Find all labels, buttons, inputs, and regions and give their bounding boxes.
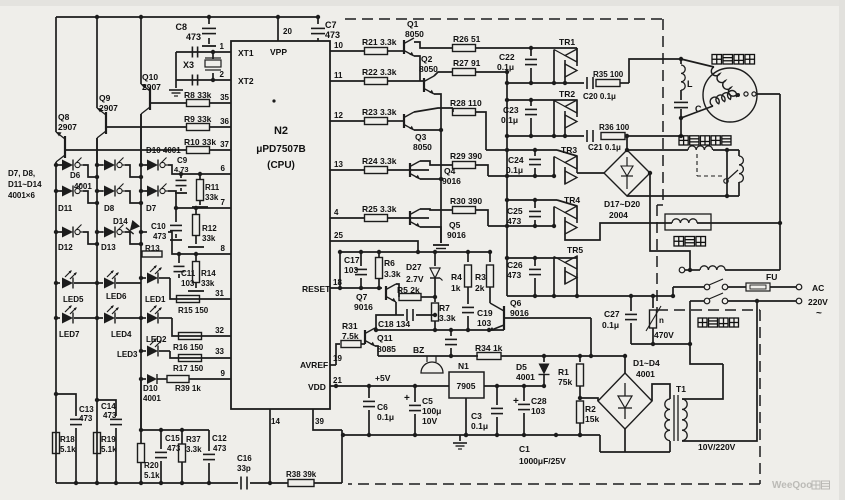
resistor R23 pin12 row bbox=[330, 120, 365, 122]
svg-text:R15 150: R15 150 bbox=[178, 306, 209, 315]
wire R28 jog to TR3 row bbox=[476, 112, 486, 150]
wire snubber row TR1 bbox=[507, 82, 584, 84]
resistor R16 bbox=[179, 333, 202, 340]
inlet valve box bbox=[665, 214, 711, 230]
svg-text:C12: C12 bbox=[212, 434, 227, 443]
wire rail to Q9 emitter bbox=[96, 17, 98, 108]
svg-text:Q10: Q10 bbox=[142, 72, 158, 82]
wire LED2 to R16 pin32 bbox=[172, 318, 231, 336]
motor centrifugal switch bbox=[736, 93, 740, 97]
wire TR4 MT to valve row bbox=[565, 223, 615, 240]
svg-text:7: 7 bbox=[221, 198, 226, 207]
diode key row1 col2 bbox=[102, 164, 104, 166]
svg-text:R37: R37 bbox=[186, 435, 201, 444]
svg-text:R6: R6 bbox=[384, 258, 395, 268]
wire N1 ground pin bbox=[465, 398, 467, 435]
motor winding B bbox=[710, 91, 737, 106]
svg-text:FU: FU bbox=[766, 272, 777, 282]
svg-text:11: 11 bbox=[334, 71, 343, 80]
svg-text:R36 100: R36 100 bbox=[599, 123, 630, 132]
inductor L motor bbox=[679, 57, 683, 61]
wire bridge bottom to secondary return bbox=[624, 429, 626, 452]
wire left rail vertical upper bbox=[55, 17, 57, 132]
svg-text:C28: C28 bbox=[531, 396, 547, 406]
capacitor C12 bbox=[208, 430, 210, 451]
svg-text:7.5k: 7.5k bbox=[342, 331, 359, 341]
diode D10 bottom pin9 row bbox=[139, 377, 143, 381]
wire secondary return bbox=[600, 451, 670, 453]
svg-text:9016: 9016 bbox=[442, 176, 461, 186]
svg-text:470V: 470V bbox=[654, 330, 674, 340]
wire pin39 drop bbox=[313, 409, 342, 430]
svg-text:R39 1k: R39 1k bbox=[175, 384, 201, 393]
svg-text:C3: C3 bbox=[471, 411, 482, 421]
dashed border right upper bbox=[662, 19, 664, 205]
svg-text:33: 33 bbox=[215, 347, 224, 356]
svg-text:9016: 9016 bbox=[510, 308, 529, 318]
capacitor C23 bbox=[530, 100, 532, 106]
wire rail to Q10 emitter bbox=[140, 17, 142, 84]
triac TR1 bbox=[576, 49, 578, 66]
svg-text:C21 0.1μ: C21 0.1μ bbox=[588, 143, 621, 152]
wire pin9 column to RC row bbox=[140, 379, 142, 430]
svg-text:n: n bbox=[659, 316, 664, 325]
svg-text:LED3: LED3 bbox=[117, 350, 138, 359]
svg-text:0.1μ: 0.1μ bbox=[501, 115, 518, 125]
svg-text:C23: C23 bbox=[503, 105, 519, 115]
svg-text:25: 25 bbox=[334, 231, 343, 240]
wire Q6 base row to R34 junction bbox=[504, 317, 591, 319]
solenoid plunger coil bbox=[738, 150, 740, 156]
svg-text:R5 2k: R5 2k bbox=[397, 285, 420, 295]
svg-text:AC: AC bbox=[812, 283, 824, 293]
node top rail junction bbox=[276, 15, 280, 19]
svg-text:C17: C17 bbox=[344, 255, 360, 265]
wire TR4 top row bbox=[507, 199, 557, 201]
wire TR3 lower row bbox=[488, 175, 554, 177]
svg-text:473: 473 bbox=[507, 270, 521, 280]
wire XT2 pin 2 bbox=[176, 79, 231, 81]
svg-text:D11: D11 bbox=[58, 204, 73, 213]
svg-text:D1~D4: D1~D4 bbox=[633, 358, 660, 368]
led LED5 bbox=[54, 281, 58, 285]
capacitor xtal C-a bbox=[191, 47, 193, 58]
svg-text:32: 32 bbox=[215, 326, 224, 335]
diode key D11 row2 col1 bbox=[60, 190, 62, 192]
varistor Rv 470V bbox=[651, 294, 655, 298]
svg-text:L: L bbox=[687, 79, 693, 89]
svg-text:9016: 9016 bbox=[447, 230, 466, 240]
svg-text:R8 33k: R8 33k bbox=[184, 90, 212, 100]
wire column2 vertical bbox=[96, 138, 98, 318]
svg-text:6: 6 bbox=[221, 164, 226, 173]
resistor R37 bbox=[180, 428, 184, 432]
wire RESET pin18 row bbox=[330, 287, 382, 289]
svg-text:12: 12 bbox=[334, 111, 343, 120]
svg-text:C16: C16 bbox=[237, 454, 252, 463]
wire triac common bus bbox=[506, 72, 508, 296]
triac TR4 bbox=[576, 206, 578, 223]
svg-text:R9 33k: R9 33k bbox=[184, 114, 212, 124]
resistor R26 bbox=[414, 42, 452, 48]
svg-text:473: 473 bbox=[103, 411, 117, 420]
svg-text:8050: 8050 bbox=[419, 64, 438, 74]
wire Q9 collector column2 bbox=[96, 138, 98, 165]
svg-text:37: 37 bbox=[220, 140, 229, 149]
svg-text:R21 3.3k: R21 3.3k bbox=[362, 37, 397, 47]
regulator N1 7905 bbox=[449, 372, 484, 398]
svg-text:N1: N1 bbox=[458, 361, 469, 371]
svg-text:C25: C25 bbox=[507, 206, 523, 216]
svg-text:R29 390: R29 390 bbox=[450, 151, 482, 161]
resistor R18 on left rail bbox=[53, 433, 60, 454]
wire TR5 MT to AC common bbox=[576, 273, 578, 296]
svg-text:D11~D14: D11~D14 bbox=[8, 180, 42, 189]
svg-text:473: 473 bbox=[153, 232, 167, 241]
svg-text:3.3k: 3.3k bbox=[439, 313, 456, 323]
node top rail junction bbox=[207, 15, 211, 19]
switch power S1b bbox=[690, 300, 704, 302]
resistor R4 bbox=[466, 250, 470, 254]
svg-text:Q3: Q3 bbox=[415, 132, 427, 142]
capacitor C6 bbox=[367, 384, 371, 388]
svg-text:R1: R1 bbox=[558, 367, 569, 377]
wire neutral drop bbox=[689, 301, 691, 344]
capacitor C27 bbox=[629, 294, 633, 298]
wire motor bottom lead diagonal bbox=[681, 106, 713, 118]
resistor R25 pin4 row bbox=[330, 217, 365, 219]
ground symbol under N1 bbox=[459, 435, 461, 441]
led LED4 bbox=[95, 316, 99, 320]
resistor R34 bbox=[477, 353, 501, 360]
dashed border jog bbox=[657, 204, 663, 206]
wire snubber row TR2 bbox=[507, 135, 584, 137]
solenoid mechanical link dashed bbox=[696, 154, 698, 176]
svg-text:473: 473 bbox=[213, 444, 227, 453]
svg-text:C27: C27 bbox=[604, 309, 620, 319]
svg-text:R7: R7 bbox=[439, 303, 450, 313]
capacitor C5 polarized bbox=[413, 384, 417, 388]
svg-text:C10: C10 bbox=[151, 222, 166, 231]
svg-text:33k: 33k bbox=[205, 193, 219, 202]
CPU inner dot bbox=[272, 99, 275, 102]
svg-text:4001: 4001 bbox=[516, 372, 535, 382]
svg-text:19: 19 bbox=[333, 354, 342, 363]
svg-text:Q2: Q2 bbox=[421, 54, 433, 64]
svg-text:R27 91: R27 91 bbox=[453, 58, 481, 68]
wire TR3 gate feed bbox=[553, 157, 555, 177]
transistor Q7 bbox=[385, 286, 387, 300]
svg-text:+: + bbox=[513, 396, 519, 407]
wire secondary bottom bbox=[669, 441, 671, 452]
svg-text:R10 33k: R10 33k bbox=[184, 137, 216, 147]
svg-text:9: 9 bbox=[221, 369, 226, 378]
svg-text:R23 3.3k: R23 3.3k bbox=[362, 107, 397, 117]
motor circle bbox=[703, 68, 757, 122]
wire LED1 to R15 pin31 bbox=[170, 278, 231, 299]
resistor R3 bbox=[488, 250, 492, 254]
svg-text:R2: R2 bbox=[585, 404, 596, 414]
svg-text:VDD: VDD bbox=[308, 382, 326, 392]
dashed border power box right bbox=[759, 310, 761, 484]
svg-text:33p: 33p bbox=[237, 464, 251, 473]
wire TR2 gate feed bbox=[553, 101, 555, 137]
wire row2 to pin7 bbox=[168, 191, 231, 208]
wire Q7 emitter down bbox=[395, 302, 397, 315]
svg-text:C26: C26 bbox=[507, 260, 523, 270]
svg-text:Q11: Q11 bbox=[377, 333, 393, 343]
resistor R24 pin13 row bbox=[330, 169, 365, 171]
svg-text:2004: 2004 bbox=[609, 210, 628, 220]
svg-text:TR5: TR5 bbox=[567, 245, 583, 255]
zener D27 bbox=[433, 250, 437, 254]
svg-text:36: 36 bbox=[220, 117, 229, 126]
resistor R10 pin37 bbox=[65, 149, 186, 151]
svg-text:R16 150: R16 150 bbox=[173, 343, 204, 352]
wire TR3 MT to bridge bbox=[577, 172, 604, 174]
svg-text:D13: D13 bbox=[101, 243, 116, 252]
wire left rail vertical lower bbox=[55, 162, 57, 483]
svg-text:TR3: TR3 bbox=[561, 145, 577, 155]
capacitor C17 bbox=[359, 250, 363, 254]
svg-text:C13: C13 bbox=[79, 405, 94, 414]
wire R34 row bbox=[378, 355, 478, 357]
svg-text:D12: D12 bbox=[58, 243, 73, 252]
svg-text:2907: 2907 bbox=[99, 103, 118, 113]
wire plunger node drop bbox=[726, 150, 728, 196]
svg-text:R22 3.3k: R22 3.3k bbox=[362, 67, 397, 77]
svg-text:D17~D20: D17~D20 bbox=[604, 199, 640, 209]
triac TR5 bbox=[576, 256, 578, 273]
wire TR1 top feed bbox=[507, 47, 577, 49]
svg-text:XT1: XT1 bbox=[238, 48, 254, 58]
svg-text:3.3k: 3.3k bbox=[384, 269, 401, 279]
wire Q5 emitter to ground bus bbox=[420, 227, 441, 243]
svg-text:9016: 9016 bbox=[354, 302, 373, 312]
led LED6 bbox=[95, 281, 99, 285]
svg-text:R14: R14 bbox=[201, 269, 216, 278]
wire TR4 lower row bbox=[488, 225, 554, 227]
capacitor C8 bbox=[208, 17, 210, 24]
transistor Q2 bbox=[423, 78, 425, 92]
svg-text:D27: D27 bbox=[406, 262, 422, 272]
wire return to zero rail bbox=[599, 435, 601, 452]
wire N1 output row bbox=[484, 385, 544, 387]
svg-text:R11: R11 bbox=[205, 183, 220, 192]
wire RC row bbox=[141, 429, 209, 431]
wire pin14 drop bbox=[269, 409, 271, 483]
wire xtal ground leg bbox=[175, 52, 177, 88]
wire key row 1 bbox=[56, 164, 62, 166]
wire TR2 top feed bbox=[507, 99, 577, 101]
capacitor C16 series bbox=[240, 477, 242, 490]
wire AVREF VDD +5V rail bbox=[330, 385, 449, 387]
svg-text:0.1μ: 0.1μ bbox=[471, 421, 488, 431]
wire Q2 emitter to common bus bbox=[434, 94, 441, 243]
svg-text:(CPU): (CPU) bbox=[267, 160, 295, 171]
diode key row1 col3 bbox=[145, 164, 147, 166]
svg-text:D7: D7 bbox=[146, 204, 157, 213]
triac TR3 bbox=[576, 156, 578, 173]
capacitor C13 bbox=[54, 392, 58, 396]
capacitor xtal C-b bbox=[191, 75, 193, 86]
resistor R20 bbox=[138, 444, 145, 463]
node top rail junction bbox=[316, 15, 320, 19]
svg-text:+: + bbox=[404, 393, 410, 404]
resistor R22 pin11 row bbox=[330, 80, 365, 82]
resistor R36 bbox=[601, 133, 625, 140]
svg-text:39: 39 bbox=[315, 417, 324, 426]
svg-text:C8: C8 bbox=[175, 22, 187, 32]
dashed border right mid bbox=[656, 205, 658, 310]
capacitor C25 bbox=[534, 200, 536, 208]
svg-text:R17 150: R17 150 bbox=[173, 364, 204, 373]
wire top VDD rail bbox=[56, 16, 318, 18]
svg-text:21: 21 bbox=[333, 376, 342, 385]
svg-text:R35 100: R35 100 bbox=[593, 70, 624, 79]
resistor R27 bbox=[434, 72, 453, 76]
svg-text:1: 1 bbox=[220, 42, 225, 51]
svg-text:C7: C7 bbox=[325, 20, 337, 30]
resistor R9 pin36 bbox=[106, 126, 186, 128]
svg-text:LED1: LED1 bbox=[145, 295, 166, 304]
svg-text:C22: C22 bbox=[499, 52, 515, 62]
wire LED3 to R17 pin33 bbox=[170, 351, 231, 358]
wire VPP pin 20 bbox=[277, 17, 279, 41]
dashed border bottom bbox=[348, 483, 760, 485]
crystal X3 bbox=[212, 52, 214, 59]
transistor Q11 bbox=[364, 330, 366, 344]
svg-text:75k: 75k bbox=[558, 377, 572, 387]
svg-text:RESET: RESET bbox=[302, 284, 331, 294]
resistor R28 bbox=[414, 108, 453, 112]
capacitor C20 bbox=[586, 77, 588, 89]
wire neutral row under varistor bbox=[631, 343, 690, 345]
svg-text:10: 10 bbox=[334, 41, 343, 50]
resistor R2 bbox=[577, 401, 584, 423]
transistor Q3 bbox=[403, 114, 405, 128]
wire solenoid to plunger node bbox=[713, 149, 739, 151]
svg-text:C15: C15 bbox=[165, 434, 180, 443]
svg-text:103: 103 bbox=[477, 318, 491, 328]
svg-text:TR1: TR1 bbox=[559, 37, 575, 47]
svg-text:5.1k: 5.1k bbox=[101, 445, 117, 454]
capacitor C11 bbox=[177, 252, 181, 256]
svg-text:AVREF: AVREF bbox=[300, 360, 328, 370]
wire TR3 top row from R28 bbox=[486, 149, 557, 151]
wire secondary top to bridge bbox=[652, 384, 670, 401]
resistor R21 pin10 row bbox=[330, 50, 365, 52]
diode key D13 row3 col2 bbox=[102, 231, 104, 233]
svg-text:D14: D14 bbox=[113, 217, 128, 226]
wire R38 to zero rail bbox=[341, 430, 343, 483]
wire row1 to pin6 bbox=[168, 165, 231, 174]
svg-text:4001: 4001 bbox=[74, 182, 92, 191]
capacitor C10 bbox=[174, 206, 178, 210]
wire bridge right vertex down bbox=[650, 173, 690, 267]
resistor R19 bbox=[96, 318, 98, 483]
wire row3 to pin8 bbox=[168, 232, 231, 254]
wire TR1 top lead bbox=[576, 48, 578, 49]
wire neutral jog to primary bbox=[690, 344, 723, 364]
svg-text:20: 20 bbox=[283, 27, 292, 36]
resistor R8 pin35 bbox=[150, 102, 186, 104]
svg-text:C5: C5 bbox=[422, 396, 433, 406]
svg-text:18: 18 bbox=[333, 278, 342, 287]
svg-text:2907: 2907 bbox=[142, 82, 161, 92]
svg-text:LED2: LED2 bbox=[146, 335, 167, 344]
wire motor top lead diagonal bbox=[681, 59, 714, 67]
svg-text:R20: R20 bbox=[144, 461, 159, 470]
resistor R15 bbox=[177, 296, 200, 303]
svg-text:7905: 7905 bbox=[457, 381, 476, 391]
resistor R6 bbox=[377, 250, 381, 254]
svg-text:R38 39k: R38 39k bbox=[286, 470, 317, 479]
svg-text:T1: T1 bbox=[676, 384, 686, 394]
capacitor C7 bbox=[317, 17, 319, 24]
svg-text:C1: C1 bbox=[519, 444, 530, 454]
wire Q7 emitter column bbox=[376, 315, 396, 330]
wire pin25 jog to zener rail bbox=[330, 241, 418, 252]
svg-text:C11: C11 bbox=[181, 269, 196, 278]
led LED7 bbox=[54, 316, 58, 320]
transistor Q1 bbox=[403, 40, 405, 54]
svg-text:LED4: LED4 bbox=[111, 330, 132, 339]
svg-text:C6: C6 bbox=[377, 402, 388, 412]
wire key row 2 bbox=[56, 190, 62, 192]
svg-text:10V/220V: 10V/220V bbox=[698, 442, 736, 452]
svg-text:1000μF/25V: 1000μF/25V bbox=[519, 456, 566, 466]
wire TR2 MT to snubber row bbox=[564, 128, 566, 136]
fuse FU bbox=[746, 283, 770, 291]
resistor R29 bbox=[420, 161, 453, 165]
wire column3 vertical bbox=[140, 114, 142, 443]
wire C17 left leg to reset row bbox=[339, 252, 341, 288]
node top rail junction bbox=[139, 15, 143, 19]
svg-text:C18 134: C18 134 bbox=[378, 319, 410, 329]
resistor R1 bbox=[578, 354, 582, 358]
svg-text:5.1k: 5.1k bbox=[60, 445, 76, 454]
inlet valve coil bbox=[615, 222, 672, 224]
svg-text:D10 4001: D10 4001 bbox=[146, 146, 181, 155]
label motor bbox=[712, 55, 722, 65]
svg-text:5.1k: 5.1k bbox=[144, 471, 160, 480]
svg-text:D5: D5 bbox=[516, 362, 527, 372]
svg-text:R25 3.3k: R25 3.3k bbox=[362, 204, 397, 214]
svg-text:Q4: Q4 bbox=[444, 166, 456, 176]
capacitor between buses bbox=[449, 328, 453, 332]
wire motor to right rail bbox=[756, 93, 780, 95]
resistor R17 bbox=[179, 355, 202, 362]
wire TR5 top feed bbox=[507, 257, 577, 259]
label inlet valve bbox=[674, 237, 684, 247]
capacitor C24 bbox=[534, 150, 536, 156]
svg-text:LED5: LED5 bbox=[63, 295, 84, 304]
svg-text:R26 51: R26 51 bbox=[453, 34, 481, 44]
svg-text:4001: 4001 bbox=[143, 394, 161, 403]
svg-text:WeeQoo: WeeQoo bbox=[772, 480, 812, 491]
svg-text:2: 2 bbox=[220, 70, 225, 79]
svg-text:3.3k: 3.3k bbox=[186, 445, 202, 454]
transistor Q10 bbox=[149, 88, 151, 110]
diode key D8 row2 col2 bbox=[102, 190, 104, 192]
transistor Q8 bbox=[64, 136, 66, 158]
resistor R35 bbox=[596, 80, 620, 87]
wire Q3 emitter to bus bbox=[414, 129, 441, 131]
wire Q11 emitter to R34 row bbox=[375, 346, 378, 356]
svg-text:TR4: TR4 bbox=[564, 195, 580, 205]
triac TR2 bbox=[576, 100, 578, 117]
